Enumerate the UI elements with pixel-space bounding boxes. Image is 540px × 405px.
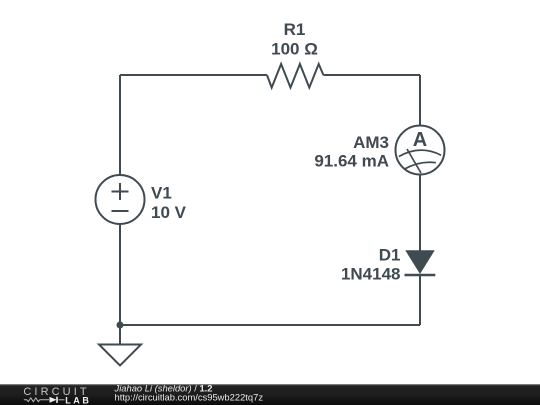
svg-text:V1: V1 [151,183,172,202]
svg-text:http://circuitlab.com/cs95wb22: http://circuitlab.com/cs95wb222tq7z [115,392,264,403]
svg-text:10 V: 10 V [151,203,187,222]
svg-text:A: A [413,129,427,151]
svg-text:100 Ω: 100 Ω [271,40,318,59]
svg-text:AM3: AM3 [353,133,389,152]
svg-text:R1: R1 [284,20,306,39]
svg-text:D1: D1 [379,246,401,265]
svg-text:LAB: LAB [65,395,91,405]
svg-text:91.64 mA: 91.64 mA [314,152,389,171]
svg-text:1N4148: 1N4148 [341,265,401,284]
